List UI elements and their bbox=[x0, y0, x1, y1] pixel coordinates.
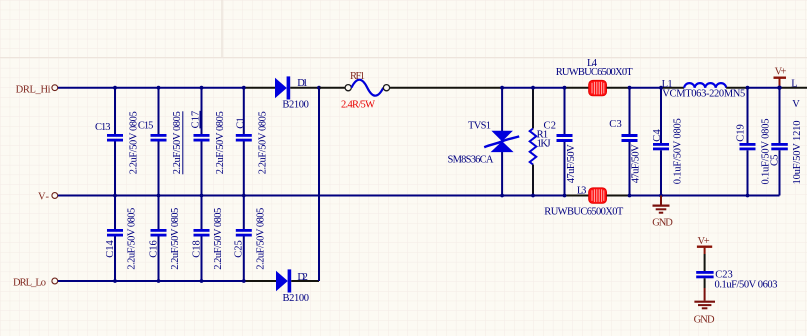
wire RF1 to TVS junction bbox=[390, 87, 503, 89]
svg-text:C4: C4 bbox=[652, 129, 663, 142]
junction dot top of vertical bbox=[317, 86, 321, 90]
capacitor C25 bbox=[236, 196, 252, 283]
wire D1 anode lead bbox=[244, 87, 276, 89]
svg-text:V-: V- bbox=[38, 191, 50, 202]
wire C19 junction to V+ junction bbox=[748, 87, 780, 89]
svg-text:V: V bbox=[792, 99, 800, 110]
svg-text:47uF/50V: 47uF/50V bbox=[566, 144, 577, 183]
inductor L1 bbox=[684, 83, 726, 88]
svg-text:0.1uF/50V 0603: 0.1uF/50V 0603 bbox=[715, 279, 778, 290]
value 2.2uF/50V 0805 (C15, underlined) bbox=[172, 111, 183, 174]
svg-text:2.2uF/50V 0805: 2.2uF/50V 0805 bbox=[258, 111, 269, 174]
wire RF1 left pin bbox=[319, 87, 345, 89]
capacitor C13 bbox=[107, 86, 123, 198]
wire L3 right lead bbox=[607, 195, 630, 197]
capacitor C3 bbox=[622, 86, 638, 198]
svg-text:C15: C15 bbox=[138, 120, 154, 131]
svg-text:GND: GND bbox=[652, 218, 673, 229]
diode D1 bbox=[275, 76, 290, 99]
pin DRL_Lo circle bbox=[52, 278, 58, 284]
diode D2 bbox=[276, 269, 291, 292]
svg-text:RUWBUC6500X0T: RUWBUC6500X0T bbox=[556, 67, 634, 78]
svg-text:C1: C1 bbox=[235, 117, 246, 129]
TVS diode TVS1 bbox=[484, 86, 519, 198]
wire V- rail left bbox=[58, 195, 565, 197]
fuse RF1 bbox=[345, 80, 390, 96]
power port V+ (C23 branch) bbox=[697, 247, 712, 254]
wire DRL_Lo rail bbox=[58, 280, 244, 282]
svg-text:2.2uF/50V 0805: 2.2uF/50V 0805 bbox=[213, 208, 224, 270]
sheet major grid line horizontal bbox=[0, 57, 807, 59]
svg-text:SM8S36CA: SM8S36CA bbox=[448, 154, 494, 165]
label C17 (rotated, underlined) bbox=[191, 111, 202, 129]
capacitor C2 bbox=[557, 86, 573, 198]
wire C23 to GND bbox=[704, 278, 706, 288]
wire C3 junction to C4 junction bbox=[630, 87, 662, 89]
capacitor C14 bbox=[107, 196, 123, 283]
svg-text:2.2uF/50V 0805: 2.2uF/50V 0805 bbox=[170, 208, 181, 270]
capacitor C19 bbox=[740, 86, 756, 198]
svg-text:TVS1: TVS1 bbox=[468, 121, 491, 132]
svg-text:C3: C3 bbox=[609, 119, 622, 130]
svg-text:2.4R/5W: 2.4R/5W bbox=[341, 99, 375, 110]
svg-text:B2100: B2100 bbox=[282, 100, 309, 111]
wire L1 to C19 junction bbox=[726, 87, 747, 89]
ground symbol GND (main) bbox=[653, 196, 670, 213]
svg-text:C13: C13 bbox=[95, 122, 111, 133]
svg-text:V+: V+ bbox=[775, 67, 787, 78]
svg-text:2.2uF/50V 0805: 2.2uF/50V 0805 bbox=[172, 111, 183, 174]
svg-text:B2100: B2100 bbox=[283, 293, 310, 304]
ferrite bead L3 bbox=[589, 188, 607, 204]
wire L3 left lead bbox=[565, 195, 590, 197]
svg-text:10uF/50V 1210: 10uF/50V 1210 bbox=[792, 121, 803, 185]
svg-text:2.2uF/50V 0805: 2.2uF/50V 0805 bbox=[215, 111, 226, 174]
ferrite bead L4 bbox=[589, 80, 607, 96]
capacitor C15 bbox=[151, 86, 167, 198]
wire L4 right lead bbox=[607, 87, 630, 89]
wire D2 cathode to corner bbox=[291, 280, 319, 282]
svg-text:C5: C5 bbox=[769, 155, 780, 167]
svg-text:0.1uF/50V 0805: 0.1uF/50V 0805 bbox=[673, 118, 684, 184]
capacitor C17 bbox=[194, 86, 210, 198]
svg-text:DRL_Hi: DRL_Hi bbox=[16, 84, 51, 95]
svg-text:DRL_Lo: DRL_Lo bbox=[13, 278, 46, 289]
wire top rail left bbox=[58, 87, 244, 89]
wire D2 anode lead bbox=[244, 280, 277, 282]
capacitor C16 bbox=[151, 196, 167, 283]
svg-text:L: L bbox=[791, 78, 797, 89]
capacitor C18 bbox=[194, 196, 210, 283]
svg-text:C14: C14 bbox=[105, 240, 116, 258]
svg-text:1KJ: 1KJ bbox=[537, 138, 551, 149]
wire V+ junction to right edge (L2 pin) bbox=[780, 87, 807, 89]
svg-text:V+: V+ bbox=[698, 236, 710, 247]
svg-text:GND: GND bbox=[694, 314, 715, 325]
svg-text:RF1: RF1 bbox=[350, 71, 365, 82]
svg-text:VCMT063-220MN5: VCMT063-220MN5 bbox=[662, 89, 745, 100]
svg-text:2.2uF/50V 0805: 2.2uF/50V 0805 bbox=[127, 208, 138, 270]
svg-text:RUWBUC6500X0T: RUWBUC6500X0T bbox=[544, 206, 624, 217]
svg-text:0.1uF/50V 0805: 0.1uF/50V 0805 bbox=[761, 119, 772, 185]
wire C4 junction to L1 bbox=[661, 87, 684, 89]
svg-text:C25: C25 bbox=[234, 240, 245, 258]
wire V+ to C23 bbox=[704, 254, 706, 271]
wire L4 left lead bbox=[565, 87, 590, 89]
svg-text:47uF/50V: 47uF/50V bbox=[631, 144, 642, 183]
capacitor C23 bbox=[696, 271, 713, 278]
svg-text:C18: C18 bbox=[191, 240, 202, 258]
svg-text:2.2uF/50V 0805: 2.2uF/50V 0805 bbox=[255, 208, 266, 270]
pin V- circle bbox=[52, 193, 58, 199]
wire D1 cathode to junction bbox=[290, 87, 319, 89]
capacitor C5 bbox=[771, 88, 788, 196]
resistor R1 bbox=[530, 86, 537, 198]
pin DRL_Hi circle bbox=[52, 85, 58, 91]
svg-text:C19: C19 bbox=[735, 124, 746, 142]
svg-text:C2: C2 bbox=[544, 121, 557, 132]
wire GND rail right bbox=[630, 195, 780, 197]
svg-text:C16: C16 bbox=[148, 240, 159, 258]
capacitor C4 bbox=[653, 86, 669, 198]
power port V+ (main) bbox=[774, 78, 787, 88]
wire TVS junction to C2 bbox=[502, 87, 564, 89]
sheet major grid line vertical bbox=[221, 0, 223, 58]
capacitor C1 bbox=[236, 86, 252, 198]
svg-text:L3: L3 bbox=[577, 185, 587, 196]
junction dot V+ / C5 bbox=[777, 86, 781, 90]
ground symbol GND (C23 branch) bbox=[694, 288, 715, 308]
wire vertical junction column bbox=[318, 88, 320, 281]
